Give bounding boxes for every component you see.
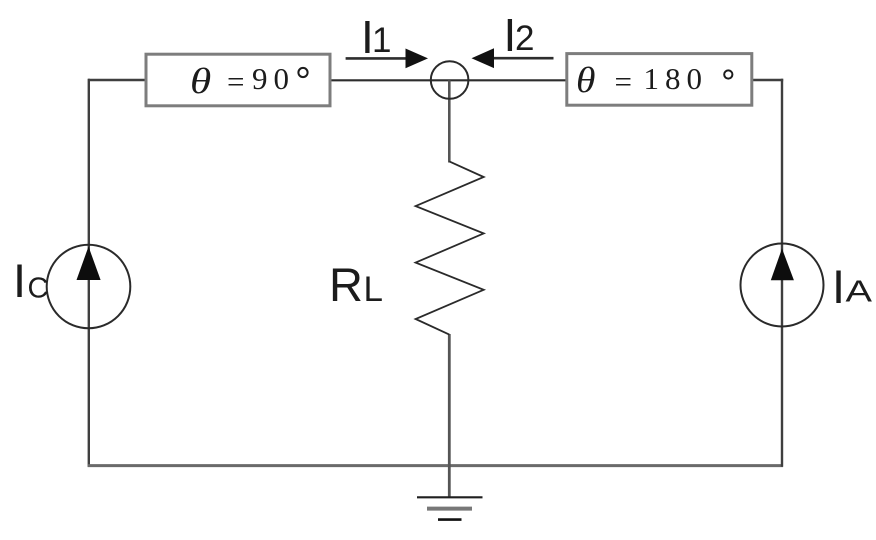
svg-text:A: A [846,274,873,309]
svg-text:C: C [28,273,49,305]
svg-text:I: I [13,254,26,307]
svg-text:L: L [364,270,383,309]
resistor RL zigzag [416,161,484,334]
wire top-center horizontal (left box to right box through node) [330,79,567,81]
wire bottom horizontal [88,464,783,467]
wire top-left horizontal (box to corner) [88,79,146,81]
wire right vertical (corner through source IA to bottom) [781,79,783,467]
current arrow I1 [346,49,428,69]
svg-text:1: 1 [372,21,391,60]
phase box theta=90 [146,54,330,106]
svg-text:θ: θ [576,61,595,101]
current arrow I2 [472,48,554,68]
wire top-right horizontal (box to corner) [752,79,783,81]
wire resistor bottom to ground [448,334,451,497]
svg-text:2: 2 [515,19,534,58]
wire left vertical (corner through source IC to bottom) [88,79,90,467]
svg-text:I: I [832,260,845,313]
svg-text:180: 180 [644,61,709,96]
phase box theta=180 [567,54,752,106]
svg-text:θ: θ [190,61,211,101]
svg-text:90: 90 [252,61,295,96]
current source IC circle [47,245,131,329]
current source IC arrow [77,247,101,281]
wire node to resistor top [448,80,451,162]
node junction circle [431,61,469,99]
svg-text:=: = [227,64,244,99]
current source IA arrow [771,249,794,281]
current source IA circle [741,244,824,327]
svg-text:R: R [329,258,363,311]
svg-text:=: = [615,64,632,99]
ground [417,497,483,519]
